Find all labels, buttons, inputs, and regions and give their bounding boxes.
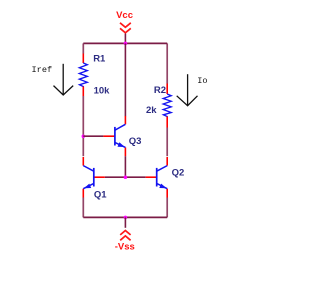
wire Vcc stem <box>124 34 126 44</box>
svg-text:2k: 2k <box>146 105 157 116</box>
wire Q2 emitter to bottom rail <box>166 198 168 218</box>
svg-text:R2: R2 <box>154 85 166 96</box>
node base rail junction <box>124 175 128 179</box>
wire Q3 base wire <box>83 135 103 137</box>
wire left top segment <box>82 43 84 53</box>
svg-text:Q3: Q3 <box>129 136 142 147</box>
wire Q1 emitter to bottom rail <box>82 198 84 218</box>
node left junction <box>82 134 86 138</box>
svg-text:Iref: Iref <box>32 65 53 75</box>
Io arrow <box>177 74 198 106</box>
wire Vss stem <box>124 217 126 227</box>
svg-text:-Vss: -Vss <box>115 242 135 253</box>
resistor R1 <box>79 54 87 97</box>
transistor Q1 <box>83 157 105 198</box>
Iref arrow <box>54 64 74 95</box>
wire right top segment <box>166 43 168 83</box>
svg-text:Io: Io <box>197 76 207 86</box>
svg-text:10k: 10k <box>94 85 111 96</box>
wire center segment Vcc to Q3 <box>124 43 126 116</box>
transistor Q3 <box>103 116 125 156</box>
svg-text:R1: R1 <box>93 54 106 65</box>
Vcc power symbol <box>120 23 131 33</box>
svg-text:Q1: Q1 <box>94 189 107 200</box>
resistor R2 <box>163 84 171 128</box>
transistor Q2 <box>146 157 168 198</box>
node bottom junction <box>124 216 128 220</box>
wire bottom rail <box>83 216 167 218</box>
wire Q3 emitter to base rail <box>124 156 126 177</box>
wire right middle segment <box>166 128 168 157</box>
wire left middle segment <box>82 96 84 156</box>
wire base rail <box>105 176 146 178</box>
svg-text:Vcc: Vcc <box>116 10 133 21</box>
svg-text:Q2: Q2 <box>172 168 185 179</box>
-Vss power symbol <box>120 231 130 241</box>
node Vcc junction <box>124 42 128 46</box>
wire top rail <box>83 42 167 44</box>
